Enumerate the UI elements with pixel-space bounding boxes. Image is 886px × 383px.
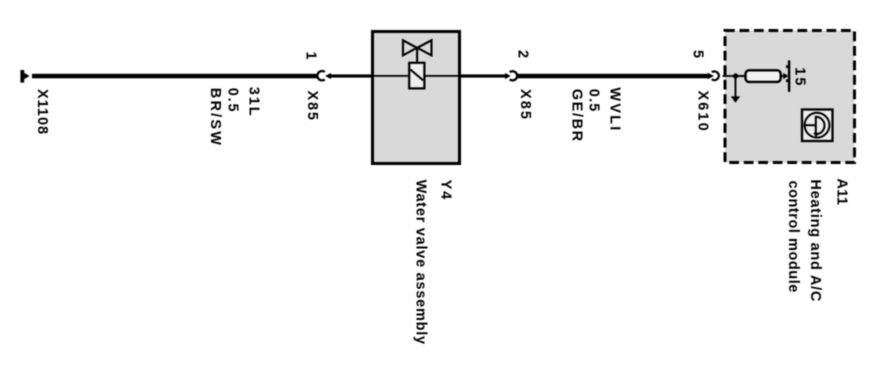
svg-text:0.5: 0.5 xyxy=(586,89,602,113)
svg-text:X1108: X1108 xyxy=(34,89,50,135)
svg-text:31L: 31L xyxy=(245,87,261,118)
svg-text:X85: X85 xyxy=(304,91,320,122)
svg-text:1: 1 xyxy=(302,52,318,61)
svg-text:Water valve assembly: Water valve assembly xyxy=(412,180,428,345)
svg-text:2: 2 xyxy=(515,50,531,59)
svg-text:A11: A11 xyxy=(833,178,849,205)
svg-text:Heating and A/C: Heating and A/C xyxy=(807,179,823,302)
svg-text:control module: control module xyxy=(785,181,801,293)
svg-text:X85: X85 xyxy=(517,89,533,121)
svg-text:X610: X610 xyxy=(694,91,710,133)
svg-text:0.5: 0.5 xyxy=(225,88,241,114)
svg-text:GE/BR: GE/BR xyxy=(568,89,584,143)
svg-text:15: 15 xyxy=(791,67,807,87)
svg-text:WVLI: WVLI xyxy=(606,87,622,132)
svg-text:5: 5 xyxy=(690,50,706,59)
svg-text:Y4: Y4 xyxy=(437,180,453,202)
svg-text:BR/SW: BR/SW xyxy=(207,88,223,147)
